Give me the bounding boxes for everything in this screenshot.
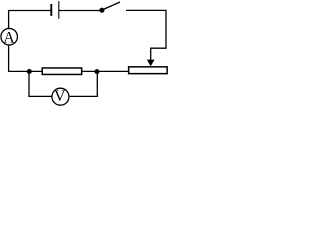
ammeter A: circle — [1, 28, 18, 45]
junction node left (voltmeter tap) — [27, 69, 32, 74]
wire: right voltmeter leg — [70, 72, 98, 97]
voltmeter V: circle — [52, 88, 69, 105]
wire: left voltmeter leg — [29, 72, 52, 97]
resistor R box — [42, 68, 81, 75]
rheostat body (variable resistor box) — [129, 67, 168, 74]
svg-text:A: A — [3, 29, 15, 46]
junction node right (voltmeter tap) — [95, 69, 100, 74]
wire: top-left corner, battery left lead down to ammeter top — [9, 11, 51, 28]
wire: ammeter bottom down and along bottom to resistor left terminal — [9, 46, 43, 72]
wire: battery to switch pivot — [59, 10, 100, 12]
battery cell: thick short negative plate — [50, 4, 52, 16]
wire: resistor right terminal to rheostat left terminal — [82, 70, 128, 72]
switch pivot dot — [99, 8, 104, 13]
rheostat wiper arrowhead — [147, 60, 155, 67]
svg-text:V: V — [54, 88, 66, 105]
wire: switch right contact along top, down right side to rheostat wiper stem — [126, 10, 166, 60]
battery cell: thin long positive plate — [58, 1, 60, 19]
switch blade (open) — [102, 2, 120, 10]
